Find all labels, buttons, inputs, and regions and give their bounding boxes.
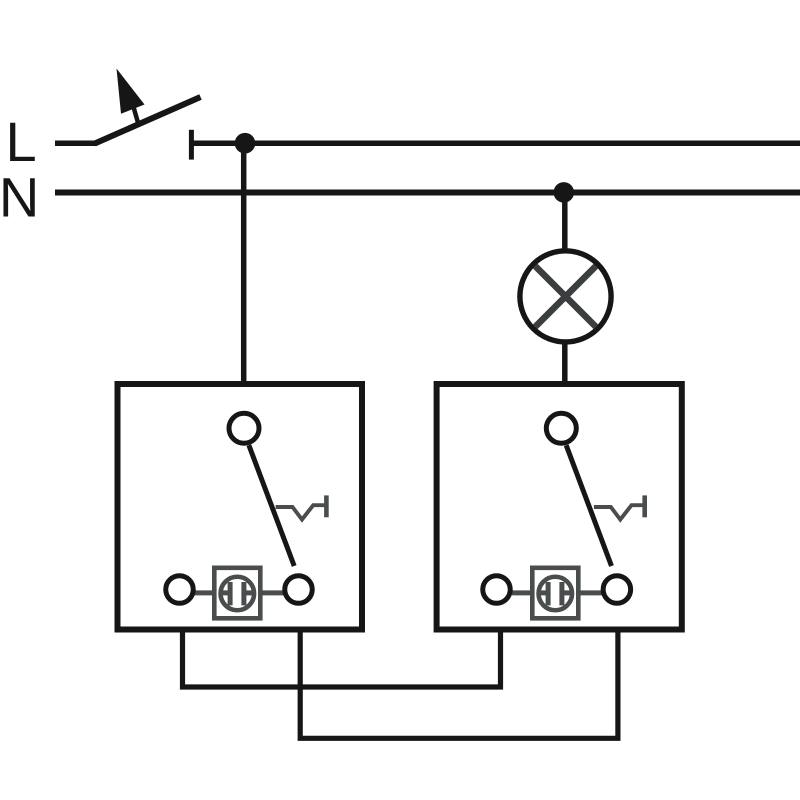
switch box 1 top terminal circle: [229, 413, 259, 443]
node junction dot on L: [235, 133, 256, 154]
wire from lamp down to switch box 2: [562, 342, 568, 386]
lamp E1 cross stroke 2: [535, 266, 596, 327]
node junction dot on N: [554, 182, 575, 203]
switch box 1 glow lamp link right: [246, 590, 285, 595]
switch box 2 blade: [566, 445, 611, 566]
switch box 1 outline: [118, 384, 363, 630]
switch box 1 spring end bar: [324, 495, 329, 517]
lamp E1 circle: [520, 251, 611, 342]
wire corridor 2 (box1 right pin to box2 right pin): [300, 628, 618, 738]
switch S1 blade: [95, 97, 201, 144]
switch box 2 glow lamp square: [532, 568, 578, 619]
switch box 2 bottom left terminal: [483, 576, 511, 604]
switch S1 actuator shaft: [134, 107, 139, 125]
switch box 1 glow lamp left electrode: [222, 582, 230, 605]
wire from N dot down to lamp: [562, 193, 568, 253]
switch box 1 bottom right terminal: [285, 576, 313, 604]
switch box 2 bottom right terminal: [603, 576, 631, 604]
svg-text:N: N: [0, 166, 39, 229]
switch box 1 glow lamp link left: [194, 590, 228, 595]
wire corridor 1 (box1 left pin to box2 left pin): [183, 628, 501, 687]
switch box 2 top terminal circle: [546, 413, 576, 443]
wire from L dot down to switch box 1: [241, 143, 247, 384]
switch box 2 glow lamp left electrode: [540, 582, 548, 605]
switch box 1 glow lamp square: [214, 568, 260, 619]
switch box 1 glow lamp right electrode: [244, 582, 252, 605]
switch box 1 blade: [249, 445, 294, 566]
wire L line: [192, 140, 800, 146]
switch box 2 glow lamp link right: [564, 590, 604, 595]
switch S1 arrow head: [117, 69, 145, 114]
switch S1 fixed contact tick: [189, 130, 194, 160]
svg-text:L: L: [6, 110, 37, 173]
switch box 2 spring end bar: [642, 495, 647, 517]
switch box 1 glow lamp circle: [221, 577, 255, 611]
switch box 2 glow lamp circle: [539, 577, 573, 611]
switch box 2 spring symbol: [594, 505, 643, 519]
lamp E1 cross stroke 1: [535, 266, 596, 327]
switch box 2 outline: [437, 384, 682, 630]
wire L stub: [55, 140, 96, 146]
switch box 1 bottom left terminal: [166, 576, 194, 604]
switch box 2 glow lamp link left: [512, 590, 546, 595]
wire N line: [55, 190, 800, 196]
switch box 2 glow lamp right electrode: [562, 582, 570, 605]
switch box 1 spring symbol: [276, 505, 325, 519]
